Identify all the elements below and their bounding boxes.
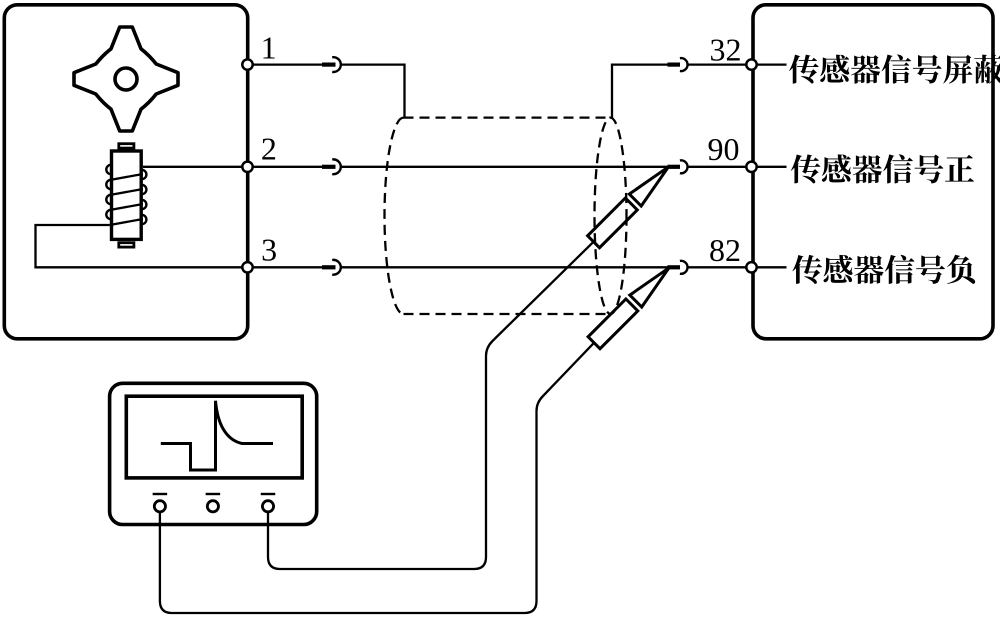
svg-text:2: 2 — [261, 130, 277, 166]
svg-text:32: 32 — [710, 32, 742, 68]
svg-text:3: 3 — [261, 231, 277, 267]
svg-text:1: 1 — [261, 30, 277, 66]
svg-text:90: 90 — [708, 131, 740, 167]
svg-text:82: 82 — [709, 232, 741, 268]
